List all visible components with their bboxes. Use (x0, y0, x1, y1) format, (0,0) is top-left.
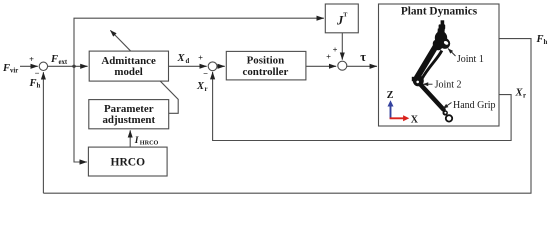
svg-text:r: r (523, 93, 526, 100)
svg-text:Joint 2: Joint 2 (435, 80, 462, 91)
robot joint 2 tab (412, 77, 417, 81)
svg-text:HRCO: HRCO (140, 140, 159, 147)
summing junction S2 (208, 62, 217, 71)
robot manipulator illustration (412, 20, 452, 121)
svg-text:HRCO: HRCO (111, 157, 146, 169)
svg-text:controller: controller (243, 66, 289, 78)
block Plant Dynamics (379, 4, 500, 126)
svg-text:−: − (203, 69, 208, 79)
wire I_HRCO from HRCO up into Parameter adjustment (129, 130, 131, 147)
svg-text:X: X (177, 53, 186, 64)
svg-text:F: F (536, 34, 544, 45)
robot joint 1 disc (440, 38, 451, 49)
svg-text:+: + (326, 52, 331, 62)
robot parallel link bar (422, 51, 442, 80)
text Admittance model (101, 54, 288, 126)
svg-text:F: F (2, 63, 10, 74)
wire F_vir input arrow into summing junction S1 (20, 65, 38, 67)
svg-text:model: model (114, 66, 142, 78)
sign plus at S1 (29, 45, 338, 79)
wire F_h feedback up into S1 bottom (42, 72, 44, 193)
wire X_r feedback from plant right side down and around up into S2 (213, 72, 512, 141)
svg-text:Joint 1: Joint 1 (457, 54, 484, 65)
svg-text:Parameter: Parameter (104, 103, 154, 115)
svg-text:+: + (29, 54, 34, 64)
svg-text:F: F (50, 54, 58, 65)
robot forearm (421, 85, 444, 110)
block HRCO (88, 147, 167, 176)
svg-text:r: r (205, 86, 208, 93)
summing junction S1 (39, 62, 47, 70)
robot upper arm link (417, 45, 437, 78)
wire tau from S3 into Plant Dynamics (347, 65, 377, 67)
robot hand grip rings (443, 110, 448, 115)
block Parameter adjustment (89, 100, 169, 129)
axis Z blue arrow (390, 105, 392, 119)
wire from Position controller to summing junction S3 (306, 65, 336, 67)
wire F_ext from S1 to Admittance model (48, 65, 88, 67)
robot shoulder mass (431, 38, 444, 52)
robot post tip (441, 20, 445, 25)
robot motor housing (435, 31, 447, 45)
arrow for Joint 1 label (448, 49, 456, 57)
arrow for Hand Grip label (443, 103, 452, 109)
svg-text:vir: vir (10, 68, 18, 75)
svg-text:Position: Position (247, 54, 285, 66)
block J^T Jacobian transpose (325, 4, 358, 33)
wire X_d from Admittance model to summing junction S2 (169, 65, 207, 67)
svg-text:Hand Grip: Hand Grip (453, 100, 496, 111)
wire F_h output from plant around bottom back to S1 (43, 39, 531, 194)
summing junction S3 (338, 61, 347, 70)
svg-text:adjustment: adjustment (102, 114, 155, 126)
arrow for Joint 2 label (423, 83, 433, 85)
node junction dot on F_ext branch (72, 65, 75, 68)
robot post knob (439, 24, 446, 29)
svg-text:F: F (29, 78, 37, 89)
wire F_ext branch up and over to J^T block (74, 18, 324, 66)
wire adaptation diagonal from Parameter adjustment to Admittance model (110, 30, 178, 113)
robot post (437, 29, 445, 37)
svg-text:+: + (198, 53, 203, 63)
robot joint 2 disc (413, 75, 424, 86)
wire from J^T block down into S3 top (341, 33, 343, 60)
axis X red arrow (390, 117, 404, 119)
svg-text:X: X (411, 115, 419, 126)
svg-text:I: I (134, 136, 139, 146)
svg-text:ext: ext (59, 59, 68, 66)
block Admittance model (89, 51, 168, 81)
svg-text:Z: Z (387, 90, 394, 101)
block Position controller (226, 51, 306, 80)
svg-text:−: − (35, 68, 40, 78)
svg-text:Plant Dynamics: Plant Dynamics (401, 6, 478, 18)
svg-text:h: h (37, 83, 41, 90)
wire F_ext branch down into HRCO block (74, 66, 87, 162)
svg-text:τ: τ (360, 50, 366, 64)
svg-text:h: h (544, 39, 548, 46)
svg-text:+: + (333, 45, 338, 55)
svg-text:d: d (186, 58, 190, 65)
wire from S2 to Position controller (217, 65, 225, 67)
